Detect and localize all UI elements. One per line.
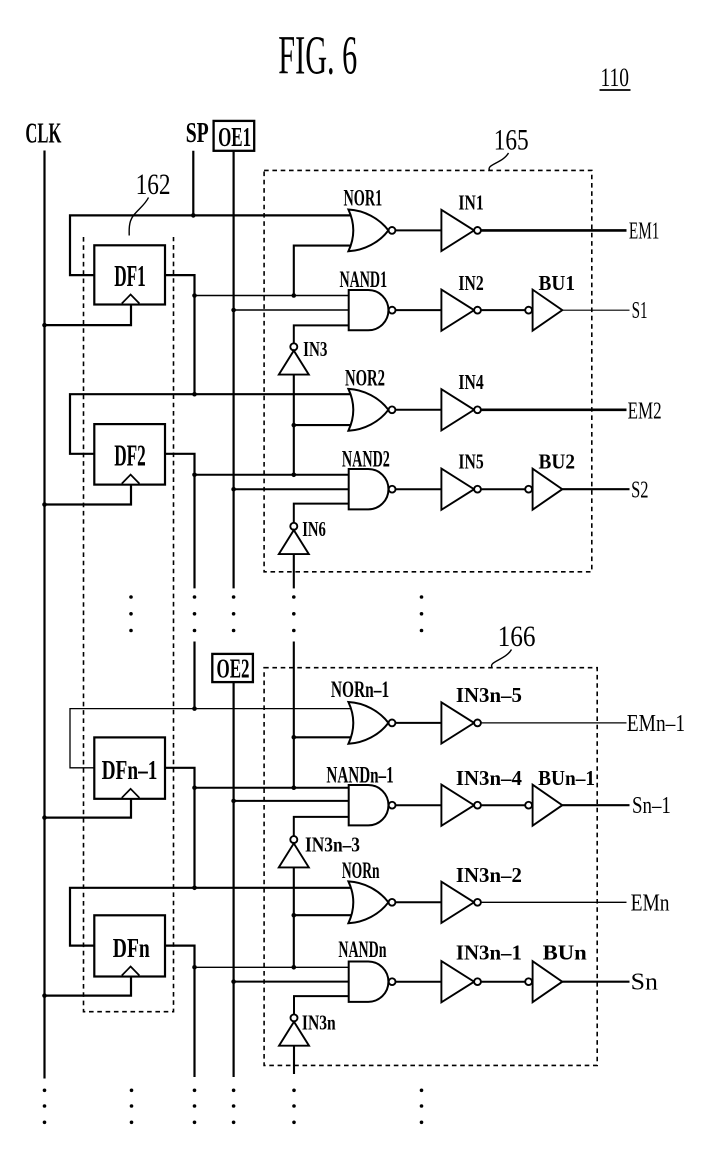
wire IN3n-3 input from Qn (293, 867, 295, 967)
NOR gate NORn–1 (348, 702, 395, 744)
wire Q1 up to NOR1 input 2 (294, 246, 353, 296)
wire output EM1 (481, 229, 627, 232)
svg-text:162: 162 (136, 168, 171, 201)
junction Q1 to inverter column (292, 293, 297, 298)
junction CLK-DF1 (42, 323, 47, 328)
svg-text:EMn: EMn (631, 890, 670, 917)
NAND gate NAND1 (349, 290, 396, 330)
junction Q2-NOR2 (292, 423, 297, 428)
NOR gate NOR2 (348, 389, 395, 431)
svg-text:IN4: IN4 (458, 370, 483, 394)
NAND gate NANDn–1 (349, 785, 396, 825)
junction Qn-1 vertical on loop (192, 886, 197, 891)
wire output Sn (562, 981, 629, 983)
wire Q1 row / DF2 input loop (node Q1) (70, 394, 352, 454)
flip-flop DFn (94, 915, 165, 976)
wire Qn to NORn input 2 (294, 914, 353, 916)
wire Q2 to NOR2 input 2 (294, 424, 353, 426)
reference numeral 165 with leader (489, 123, 529, 170)
wire IN3n–4 to BUn–1 (481, 804, 525, 806)
svg-text:BUn–1: BUn–1 (538, 766, 595, 790)
wire Qn-1 to NANDn-1 input (195, 787, 349, 789)
svg-text:CLK: CLK (25, 118, 61, 149)
svg-text:IN3: IN3 (303, 337, 327, 361)
junction OE2 tap 1 (231, 799, 236, 804)
wire Q column resume below break (lower half) (193, 642, 195, 709)
svg-text:Sn–1: Sn–1 (632, 792, 671, 819)
wire IN2 to BU1 (481, 309, 525, 311)
inverter IN4 (441, 389, 481, 430)
svg-text:IN3n–3: IN3n–3 (305, 833, 360, 857)
svg-text:Sn: Sn (631, 969, 658, 996)
wire DFn-1 output Qn-1 route (165, 768, 195, 888)
wire DF1 output Q1 route (165, 275, 195, 394)
wire NOR1 output (395, 229, 441, 231)
wire IN3 output to NAND1 input 3 (294, 325, 349, 343)
wire CLK vertical bus (43, 151, 45, 1079)
junction OE1 tap 1 (231, 308, 236, 313)
dashed block 166 (lower gate block) (264, 668, 597, 1066)
svg-text:NANDn–1: NANDn–1 (326, 762, 393, 787)
junction Qn-NORn (292, 913, 297, 918)
svg-text:166: 166 (498, 620, 536, 653)
junction Q2 turn (192, 473, 197, 478)
svg-text:BUn: BUn (543, 941, 587, 965)
svg-text:DF1: DF1 (114, 258, 146, 293)
wire CLK branch to DF2 clock (45, 485, 132, 505)
wire Qn-2 row / DFn-1 input loop (70, 709, 352, 768)
svg-text:EM2: EM2 (628, 397, 662, 424)
wire NANDn–1 output (395, 804, 441, 806)
junction Qn turn (192, 965, 197, 970)
wire OE2 to NANDn-1 input 2 (234, 800, 349, 802)
wire OE1 vertical (233, 151, 235, 589)
inverter IN1 (441, 210, 481, 251)
wire IN3 input from Q2 (293, 375, 295, 475)
svg-text:IN3n–4: IN3n–4 (456, 766, 522, 790)
wire OE2 vertical (233, 682, 235, 1078)
junction OE1 tap 2 (231, 487, 236, 492)
svg-text:DF2: DF2 (114, 437, 146, 472)
svg-text:IN5: IN5 (458, 450, 483, 474)
wire Qn-1 row / DFn input loop (70, 888, 352, 946)
wire CLK branch to DF1 clock (45, 305, 132, 326)
junction Qn-1 turn (192, 785, 197, 790)
junction SP on node N1 (191, 213, 196, 218)
wire CLK branch to DFn-1 clock (45, 799, 132, 818)
svg-text:S1: S1 (632, 297, 648, 324)
svg-text:NAND1: NAND1 (340, 267, 388, 292)
NOR gate NOR1 (348, 210, 395, 252)
flip-flop DF2 (94, 424, 165, 485)
svg-text:OE2: OE2 (217, 653, 250, 684)
junction Qn-1 inverter column (292, 785, 297, 790)
dashed block 162 (flip-flop column, open top) (84, 237, 174, 1012)
svg-text:IN6: IN6 (302, 517, 326, 541)
svg-text:IN1: IN1 (458, 191, 483, 215)
reference numeral 110 with underline (600, 63, 631, 92)
junction Q1 turn (192, 293, 197, 298)
svg-text:BU2: BU2 (539, 450, 576, 474)
wire NOR2 output (395, 409, 441, 411)
dashed block 165 (upper gate block) (264, 170, 592, 571)
continuation dots middle break (129, 595, 423, 632)
wire CLK branch to DFn clock (45, 977, 132, 996)
inverter IN5 (441, 469, 481, 510)
wire inverter column resume (to NORn-1 input 2) (293, 642, 295, 788)
wire NANDn output (395, 981, 441, 983)
junction NORn-1 input 2 (292, 735, 297, 740)
wire NAND2 output (395, 488, 441, 490)
buffer BUn–1 (525, 785, 562, 826)
wire OE1 to NAND1 input 2 (234, 309, 349, 311)
svg-text:NANDn: NANDn (338, 937, 386, 962)
svg-text:NOR1: NOR1 (344, 185, 383, 210)
svg-text:IN2: IN2 (458, 271, 483, 295)
reference numeral 162 with leader (129, 168, 170, 236)
svg-text:NAND2: NAND2 (342, 447, 390, 472)
svg-text:NORn–1: NORn–1 (331, 677, 389, 702)
inverter IN3 (279, 343, 309, 374)
wire output Sn–1 (562, 804, 629, 806)
wire SP row / DF1 input loop (node N1) (70, 215, 352, 275)
wire Qn to NANDn input (195, 966, 349, 968)
wire NORn–1 output (395, 722, 441, 724)
flip-flop DFn-1 (94, 737, 165, 798)
svg-text:OE1: OE1 (218, 121, 251, 152)
wire NORn-1 input 2 tap (294, 736, 353, 738)
junction Q2 inverter column (292, 473, 297, 478)
svg-text:165: 165 (494, 123, 529, 156)
buffer BU2 (525, 469, 562, 510)
svg-text:BU1: BU1 (539, 271, 576, 295)
wire NORn output (395, 901, 441, 903)
svg-text:DFn–1: DFn–1 (102, 755, 158, 785)
svg-text:DFn: DFn (113, 933, 150, 963)
inverter IN2 (441, 290, 481, 331)
wire IN3n-3 output to NANDn-1 input 3 (294, 817, 349, 836)
label OE1 (boxed) (214, 121, 255, 152)
wire DF2 output Q2 route (165, 454, 195, 589)
wire Q2 to NAND2 input (195, 474, 349, 476)
wire OE2 to NANDn input 2 (234, 981, 349, 983)
junction CLK-DF2 (42, 502, 47, 507)
svg-text:EM1: EM1 (629, 217, 660, 244)
svg-text:110: 110 (601, 63, 630, 92)
wire OE1 to NAND2 input 2 (234, 488, 349, 490)
svg-text:IN3n–1: IN3n–1 (456, 941, 522, 965)
inverter IN3n–4 (441, 785, 481, 826)
NAND gate NANDn (349, 962, 396, 1002)
svg-text:S2: S2 (631, 477, 648, 504)
svg-text:EMn–1: EMn–1 (627, 710, 685, 737)
junction Q1 vertical on loop (192, 392, 197, 397)
buffer BU1 (525, 290, 562, 331)
junction OE2 tap 2 (231, 979, 236, 984)
wire IN6 input stub (293, 554, 295, 588)
svg-text:NOR2: NOR2 (345, 366, 385, 391)
svg-text:SP: SP (186, 118, 209, 149)
junction CLK-DFn (42, 993, 47, 998)
wire IN5 to BU2 (481, 488, 525, 490)
wire SP vertical (192, 151, 194, 216)
wire IN3n–1 to BUn (481, 981, 525, 983)
svg-text:NORn: NORn (342, 858, 380, 883)
svg-text:IN3n–5: IN3n–5 (456, 683, 522, 707)
wire DFn output Qn route (165, 946, 195, 1077)
wire output EMn–1 (481, 722, 627, 724)
svg-text:IN3n–2: IN3n–2 (456, 863, 522, 887)
inverter IN6 (279, 523, 309, 554)
reference numeral 166 with leader (492, 620, 536, 668)
buffer BUn (525, 961, 562, 1002)
inverter IN3n–5 (441, 702, 481, 743)
svg-text:IN3n: IN3n (302, 1010, 336, 1034)
NAND gate NAND2 (349, 469, 396, 509)
inverter IN3n–1 (441, 961, 481, 1002)
wire NAND1 output (395, 309, 441, 311)
wire output EMn (481, 901, 627, 903)
junction Qn-2 on loop (192, 706, 197, 711)
wire IN3n output to NANDn input 3 (294, 996, 349, 1014)
inverter IN3n–2 (441, 882, 481, 923)
wire IN3n input stub (293, 1046, 295, 1074)
wire Q1 to NAND1 input (node Q1 horizontal) (195, 295, 349, 297)
svg-text:FIG. 6: FIG. 6 (278, 25, 357, 86)
wire IN6 output to NAND2 input 3 (294, 504, 349, 523)
flip-flop DF1 (94, 245, 165, 304)
label OE2 (boxed) (212, 653, 253, 684)
junction Qn inverter column (292, 965, 297, 970)
NOR gate NORn (348, 881, 395, 923)
inverter IN3n-3 (279, 836, 309, 867)
continuation dots bottom (43, 1089, 424, 1125)
junction CLK-DFn-1 (42, 815, 47, 820)
inverter IN3n (279, 1014, 309, 1045)
wire output S1 (562, 309, 629, 311)
wire output EM2 (481, 408, 627, 411)
wire output S2 (562, 488, 629, 490)
